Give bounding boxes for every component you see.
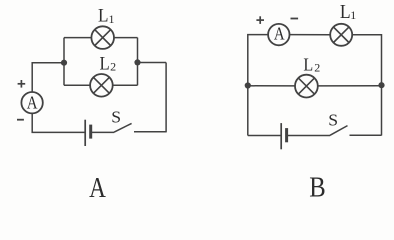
svg-text:2: 2 <box>314 61 320 75</box>
wire B middle branch left <box>248 85 295 87</box>
wire B ammeter to lamp L1 <box>290 34 331 36</box>
battery (circuit B) long plate <box>280 123 282 149</box>
wire A right vertical <box>165 63 167 133</box>
lamp L1 (circuit B) <box>330 24 352 46</box>
wire B top right corner <box>352 35 381 136</box>
wire A parallel right vertical <box>137 38 139 86</box>
svg-text:B: B <box>309 171 325 198</box>
wire A junction to right edge <box>138 62 167 64</box>
wire A L2 branch left <box>64 84 90 86</box>
wire B bottom left <box>248 135 281 137</box>
svg-text:A: A <box>27 93 38 112</box>
svg-text:1: 1 <box>109 12 115 26</box>
wire B top left corner <box>248 35 268 136</box>
switch S (circuit B) blade <box>330 126 348 136</box>
wire A L2 branch right <box>113 84 138 86</box>
svg-text:L: L <box>99 52 109 73</box>
battery (circuit A) long plate <box>84 120 86 146</box>
node B left junction <box>245 82 251 88</box>
label - (circuit A ammeter) <box>17 119 24 121</box>
wire A left vertical lower (ammeter bottom to battery corner) <box>32 113 85 132</box>
wire B battery to switch <box>288 135 331 137</box>
wire A left horizontal to junction <box>32 62 64 64</box>
ammeter A2 (circuit B) <box>268 24 289 45</box>
wire B switch right <box>350 134 382 136</box>
svg-text:S: S <box>111 108 121 127</box>
svg-text:L: L <box>303 55 313 75</box>
svg-text:A: A <box>274 25 285 44</box>
wire B middle branch right <box>318 85 382 87</box>
battery (circuit A) short thick plate <box>89 125 92 139</box>
ammeter A1 (circuit A) <box>21 92 42 113</box>
label + (circuit B ammeter) <box>256 16 264 24</box>
lamp L2 (circuit B) <box>295 75 318 98</box>
svg-text:S: S <box>328 111 338 130</box>
label + (circuit A ammeter) <box>18 80 26 88</box>
svg-text:L: L <box>98 5 108 26</box>
lamp L1 (circuit A) <box>91 26 114 49</box>
svg-text:2: 2 <box>110 60 116 74</box>
svg-text:L: L <box>340 1 351 23</box>
wire A battery to switch <box>92 131 115 133</box>
battery (circuit B) short thick plate <box>285 128 288 142</box>
label - (circuit B ammeter) <box>291 18 299 20</box>
switch S (circuit A) blade <box>114 123 132 132</box>
wire A L1 branch right <box>114 37 138 39</box>
wire A L1 branch left <box>64 37 91 39</box>
wire A switch right <box>134 131 166 133</box>
node A right junction <box>134 59 140 65</box>
wire A left vertical upper (junction row to ammeter top) <box>31 62 33 92</box>
lamp L2 (circuit A) <box>90 74 113 97</box>
wire A parallel left vertical <box>63 38 65 86</box>
node B right junction <box>378 82 384 88</box>
svg-text:A: A <box>89 172 106 198</box>
node A left junction <box>61 60 67 66</box>
svg-text:1: 1 <box>350 8 356 22</box>
